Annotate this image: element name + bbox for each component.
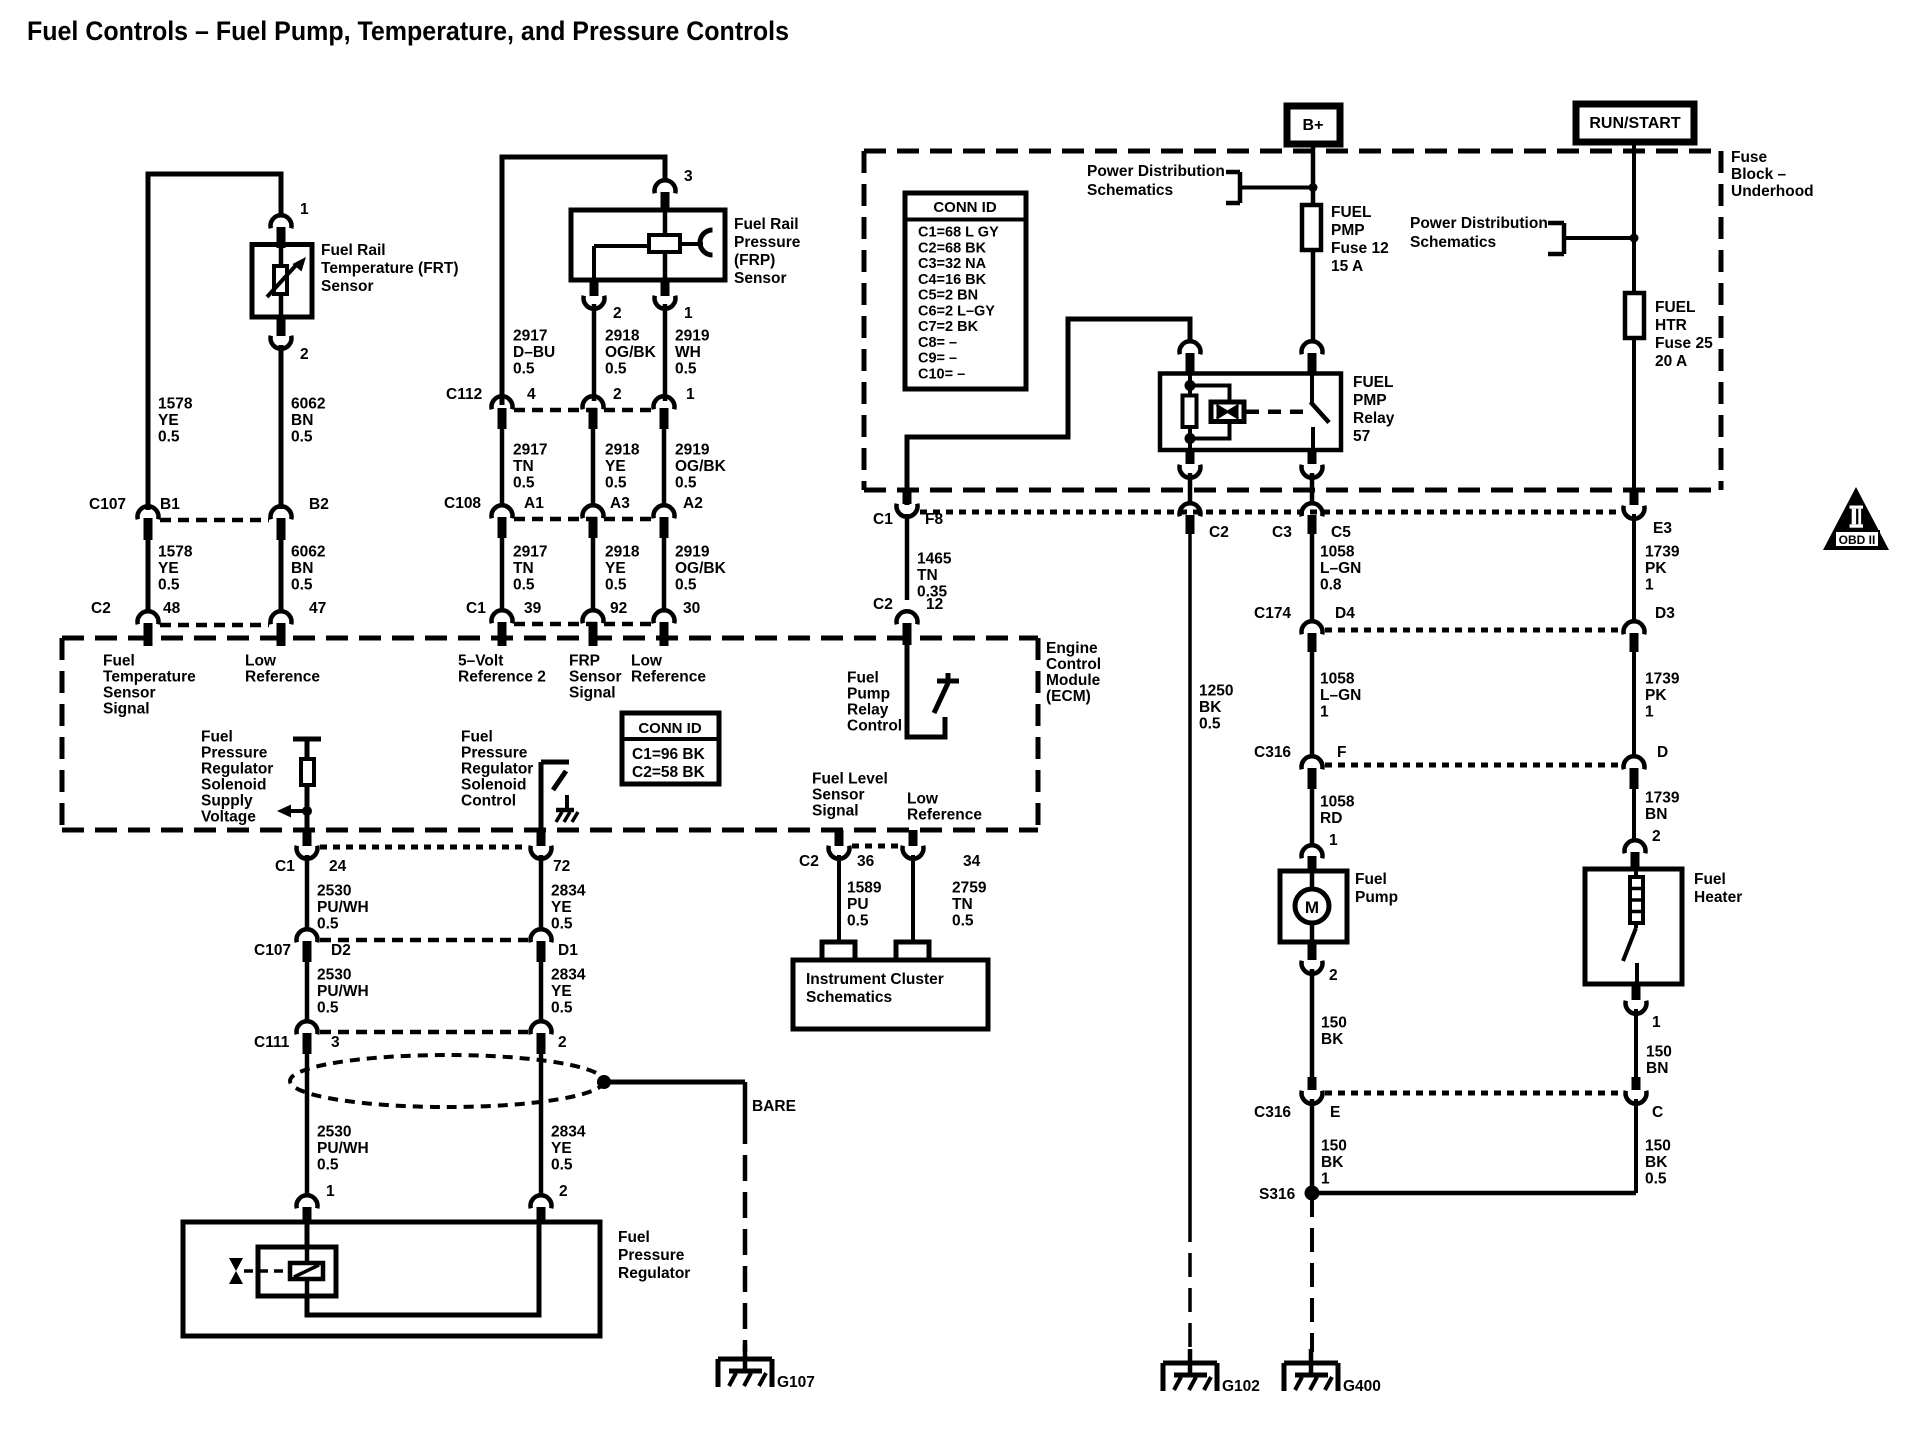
wire 1250 BK bbox=[1188, 534, 1192, 1218]
svg-text:C107: C107 bbox=[89, 496, 126, 513]
node relay pin 85 bbox=[1180, 341, 1201, 354]
connector E3 bbox=[1630, 490, 1639, 505]
heater fuel heater bbox=[1585, 869, 1682, 984]
ECM pin C2 36 fuel level sensor signal bbox=[835, 830, 844, 846]
svg-text:Fuel: Fuel bbox=[618, 1229, 650, 1246]
svg-text:M: M bbox=[1305, 898, 1319, 917]
wire 2917 D-BU bbox=[592, 304, 597, 401]
harness dotted line C1/F8 to E3 bbox=[920, 510, 1622, 515]
svg-text:2: 2 bbox=[613, 305, 622, 322]
svg-text:1: 1 bbox=[326, 1183, 335, 1200]
node pin 1 of FRT sensor bbox=[271, 215, 292, 228]
shield ellipse (dashed) bbox=[290, 1055, 604, 1107]
svg-text:A2: A2 bbox=[683, 495, 703, 512]
connector pin 72 (ECM) bbox=[537, 830, 546, 846]
svg-text:C9= –: C9= – bbox=[918, 351, 957, 367]
wire 1589 PU bbox=[837, 855, 841, 940]
connector C1 F8 (ECM pigtail) bbox=[903, 490, 912, 504]
OBD II symbol bbox=[1823, 487, 1889, 550]
connector C3 / C5 bbox=[1302, 503, 1323, 516]
svg-text:C5=2 BN: C5=2 BN bbox=[918, 288, 978, 304]
svg-text:B2: B2 bbox=[309, 496, 329, 513]
svg-text:C4=16 BK: C4=16 BK bbox=[918, 272, 987, 288]
svg-text:1: 1 bbox=[684, 305, 693, 322]
svg-text:C2=58 BK: C2=58 BK bbox=[632, 764, 706, 781]
svg-text:Control: Control bbox=[1046, 656, 1101, 673]
svg-text:OBD II: OBD II bbox=[1839, 533, 1876, 547]
svg-text:Heater: Heater bbox=[1694, 889, 1742, 906]
svg-text:G102: G102 bbox=[1222, 1378, 1260, 1395]
svg-text:Underhood: Underhood bbox=[1731, 183, 1814, 200]
svg-text:C2: C2 bbox=[91, 600, 111, 617]
relay FUEL PMP Relay 57 bbox=[1160, 374, 1341, 451]
svg-text:12: 12 bbox=[926, 596, 943, 613]
node relay pin 86 bbox=[1302, 341, 1323, 354]
connector C2 (relay 30 output) bbox=[1180, 503, 1201, 516]
wire 2834 YE lower bbox=[539, 1054, 544, 1195]
node shield junction bbox=[597, 1075, 611, 1089]
wire 1739 BN bbox=[1632, 789, 1636, 841]
svg-text:Pump: Pump bbox=[1355, 889, 1398, 906]
svg-text:FUEL: FUEL bbox=[1353, 374, 1393, 391]
svg-text:Regulator: Regulator bbox=[618, 1265, 690, 1282]
wire shield drain BARE bbox=[604, 1080, 745, 1085]
wire relay outputs to C2 C3 bbox=[1188, 473, 1193, 502]
svg-text:FUEL: FUEL bbox=[1655, 299, 1695, 316]
svg-text:C316: C316 bbox=[1254, 744, 1291, 761]
svg-text:1: 1 bbox=[686, 386, 695, 403]
svg-text:Fuel: Fuel bbox=[1694, 871, 1726, 888]
svg-text:Fuse: Fuse bbox=[1731, 149, 1768, 166]
svg-text:HTR: HTR bbox=[1655, 317, 1687, 334]
node pin 1 of FRP sensor bbox=[661, 280, 670, 296]
svg-text:2: 2 bbox=[613, 386, 622, 403]
svg-text:Fuel Controls – Fuel Pump, Tem: Fuel Controls – Fuel Pump, Temperature, … bbox=[27, 16, 789, 46]
connector C316 pin E bbox=[1308, 1077, 1317, 1090]
svg-text:C1=96 BK: C1=96 BK bbox=[632, 746, 706, 763]
node fuel pump pin 2 bbox=[1308, 942, 1317, 960]
wire FRP top bus bbox=[502, 157, 665, 405]
svg-text:Fuel Rail: Fuel Rail bbox=[734, 216, 799, 233]
svg-text:30: 30 bbox=[683, 600, 700, 617]
svg-text:C3: C3 bbox=[1272, 524, 1292, 541]
node pin 3 of FRP sensor bbox=[655, 180, 676, 193]
wire 1578 YE upper bbox=[279, 345, 284, 509]
wire RUN/START feed bbox=[1632, 142, 1636, 293]
svg-text:2: 2 bbox=[300, 346, 309, 363]
svg-text:C1: C1 bbox=[466, 600, 486, 617]
svg-text:FUEL: FUEL bbox=[1331, 204, 1371, 221]
resistor FRT sensor (Fuel Rail Temperature) bbox=[252, 245, 312, 318]
svg-text:2: 2 bbox=[559, 1183, 568, 1200]
svg-text:E: E bbox=[1330, 1104, 1340, 1121]
svg-text:C112: C112 bbox=[446, 386, 482, 403]
svg-text:92: 92 bbox=[610, 600, 627, 617]
svg-text:D2: D2 bbox=[331, 942, 351, 959]
svg-text:Power Distribution: Power Distribution bbox=[1410, 215, 1548, 232]
svg-text:F: F bbox=[1337, 744, 1346, 761]
svg-text:C107: C107 bbox=[254, 942, 291, 959]
svg-text:(ECM): (ECM) bbox=[1046, 688, 1091, 705]
svg-text:C2: C2 bbox=[873, 596, 893, 613]
svg-text:F8: F8 bbox=[925, 511, 943, 528]
wire ECM relay control to coil bbox=[907, 319, 1190, 505]
node relay pin 87 lower bbox=[1308, 450, 1317, 464]
svg-text:G107: G107 bbox=[777, 1374, 815, 1391]
svg-text:Sensor: Sensor bbox=[321, 278, 374, 295]
svg-text:34: 34 bbox=[963, 853, 981, 870]
svg-text:15 A: 15 A bbox=[1331, 258, 1363, 275]
svg-text:B1: B1 bbox=[160, 496, 180, 513]
svg-text:C108: C108 bbox=[444, 495, 481, 512]
svg-text:24: 24 bbox=[329, 858, 347, 875]
svg-text:C7=2 BK: C7=2 BK bbox=[918, 319, 979, 335]
wire 2917 TN lower bbox=[500, 538, 505, 610]
wire fuse to relay bbox=[1311, 250, 1316, 342]
svg-text:2: 2 bbox=[1652, 828, 1661, 845]
connector C1 pin 24 (ECM) bbox=[303, 830, 312, 846]
fuel pressure regulator box bbox=[183, 1222, 600, 1336]
wire 1739 PK 1 upper bbox=[1632, 514, 1636, 622]
svg-text:Power Distribution: Power Distribution bbox=[1087, 163, 1225, 180]
node pin 2 of FRP sensor bbox=[590, 280, 599, 296]
svg-text:1: 1 bbox=[300, 201, 309, 218]
svg-text:C3=32 NA: C3=32 NA bbox=[918, 256, 987, 272]
wire 1058 L-GN 1 bbox=[1310, 652, 1315, 757]
ECM pin 34 low reference bbox=[909, 830, 918, 846]
wire 150 BN bbox=[1634, 1009, 1638, 1077]
svg-text:PMP: PMP bbox=[1353, 392, 1387, 409]
svg-text:72: 72 bbox=[553, 858, 570, 875]
svg-text:C174: C174 bbox=[1254, 605, 1291, 622]
ECM module box (dashed) bbox=[62, 636, 1038, 641]
wire 150 BK 0.5 (heater) bbox=[1634, 1099, 1638, 1193]
svg-text:BARE: BARE bbox=[752, 1098, 796, 1115]
svg-text:Schematics: Schematics bbox=[1410, 234, 1496, 251]
svg-text:C1: C1 bbox=[275, 858, 295, 875]
svg-text:39: 39 bbox=[524, 600, 542, 617]
svg-text:Fuel Rail: Fuel Rail bbox=[321, 242, 386, 259]
svg-text:57: 57 bbox=[1353, 428, 1370, 445]
svg-text:E3: E3 bbox=[1653, 520, 1672, 537]
svg-text:Schematics: Schematics bbox=[806, 989, 892, 1006]
Fuse Block - Underhood box (dashed) bbox=[864, 149, 1721, 154]
svg-text:RUN/START: RUN/START bbox=[1589, 115, 1680, 132]
svg-text:2: 2 bbox=[558, 1034, 567, 1051]
wire 150 BK 1 bbox=[1310, 1099, 1315, 1193]
svg-text:Fuel: Fuel bbox=[1355, 871, 1387, 888]
terminal into instrument cluster (left) bbox=[822, 942, 855, 960]
svg-text:Sensor: Sensor bbox=[734, 270, 787, 287]
terminal B+ bbox=[1287, 106, 1340, 144]
svg-text:1: 1 bbox=[1652, 1014, 1661, 1031]
wire 2834 YE middle bbox=[539, 962, 544, 1022]
svg-text:C2=68 BK: C2=68 BK bbox=[918, 240, 987, 256]
svg-text:150BN: 150BN bbox=[1646, 1043, 1672, 1077]
valve symbol bbox=[229, 1258, 243, 1271]
svg-text:Instrument Cluster: Instrument Cluster bbox=[806, 971, 944, 988]
ECM internal ground for solenoid control bbox=[565, 795, 569, 810]
wire 2834 YE upper bbox=[539, 855, 544, 930]
ground G107 bbox=[718, 1357, 772, 1362]
wire stub into FRT sensor bbox=[277, 227, 286, 248]
CONN ID table for underhood connectors bbox=[905, 193, 1026, 389]
fuse FUEL HTR Fuse 25 20A bbox=[1625, 293, 1644, 338]
wire 1058 RD bbox=[1310, 789, 1315, 846]
dotted line pins 36-34 bbox=[852, 844, 900, 849]
wire FRT top bus bbox=[148, 174, 281, 510]
node fuel heater pin 1 bbox=[1632, 984, 1641, 1000]
wire 1250 BK dashed to ground bbox=[1188, 1218, 1192, 1352]
svg-text:Schematics: Schematics bbox=[1087, 182, 1173, 199]
motor fuel pump bbox=[1280, 871, 1347, 942]
svg-text:Fuse 25: Fuse 25 bbox=[1655, 335, 1713, 352]
wire 2530 PU/WH lower bbox=[305, 1054, 310, 1195]
wire 150 BK (pump) bbox=[1310, 969, 1315, 1077]
svg-text:(FRP): (FRP) bbox=[734, 252, 775, 269]
wire 2759 TN bbox=[911, 855, 915, 940]
svg-text:3: 3 bbox=[331, 1034, 340, 1051]
svg-text:D3: D3 bbox=[1655, 605, 1675, 622]
svg-text:C2: C2 bbox=[1209, 524, 1229, 541]
svg-text:D4: D4 bbox=[1335, 605, 1355, 622]
wire 2530 PU/WH upper bbox=[305, 855, 310, 930]
wire 2917 TN middle bbox=[500, 429, 505, 505]
sensor FRP (Fuel Rail Pressure) bbox=[571, 210, 725, 280]
instrument cluster box bbox=[793, 960, 988, 1029]
wire S316 dashed to ground bbox=[1310, 1193, 1314, 1352]
svg-text:48: 48 bbox=[163, 600, 181, 617]
terminal into instrument cluster (right) bbox=[896, 942, 929, 960]
svg-text:C1=68 L GY: C1=68 L GY bbox=[918, 225, 999, 241]
wire 1578 YE lower bbox=[146, 540, 151, 612]
ground G102 bbox=[1163, 1361, 1217, 1366]
svg-text:B+: B+ bbox=[1303, 117, 1324, 134]
terminal RUN/START bbox=[1576, 104, 1694, 142]
wire fuse to E3 bbox=[1632, 338, 1636, 492]
svg-text:C316: C316 bbox=[1254, 1104, 1291, 1121]
svg-text:2: 2 bbox=[1329, 967, 1338, 984]
CONN ID table for ECM connectors bbox=[622, 713, 719, 784]
svg-text:Module: Module bbox=[1046, 672, 1101, 689]
svg-text:47: 47 bbox=[309, 600, 326, 617]
svg-text:PMP: PMP bbox=[1331, 222, 1365, 239]
svg-text:1: 1 bbox=[1329, 832, 1338, 849]
svg-text:D1: D1 bbox=[558, 942, 578, 959]
svg-text:20 A: 20 A bbox=[1655, 353, 1687, 370]
svg-text:Fuse 12: Fuse 12 bbox=[1331, 240, 1389, 257]
svg-text:Pressure: Pressure bbox=[618, 1247, 685, 1264]
wire 1058 L-GN 0.8 bbox=[1310, 534, 1315, 622]
svg-text:A1: A1 bbox=[524, 495, 544, 512]
svg-text:150BK: 150BK bbox=[1321, 1014, 1347, 1048]
svg-text:Block –: Block – bbox=[1731, 166, 1787, 183]
svg-text:36: 36 bbox=[857, 853, 875, 870]
connector C316 pin C bbox=[1632, 1077, 1641, 1090]
solenoid fuel pressure regulator bbox=[305, 1222, 310, 1247]
svg-text:A3: A3 bbox=[610, 495, 630, 512]
svg-text:C10= –: C10= – bbox=[918, 367, 965, 383]
svg-text:Pressure: Pressure bbox=[734, 234, 801, 251]
svg-text:D: D bbox=[1657, 744, 1668, 761]
svg-text:4: 4 bbox=[527, 386, 536, 403]
node pin 2 of FRT sensor bbox=[277, 317, 286, 336]
svg-text:Relay: Relay bbox=[1353, 410, 1395, 427]
svg-text:Engine: Engine bbox=[1046, 640, 1098, 657]
svg-text:C5: C5 bbox=[1331, 524, 1351, 541]
svg-text:C6=2 L–GY: C6=2 L–GY bbox=[918, 303, 995, 319]
wire B+ feed bbox=[1311, 144, 1316, 205]
node relay pin 30 lower bbox=[1186, 450, 1195, 464]
harness dotted line C1/24 to 72 bbox=[320, 845, 528, 850]
fuse FUEL PMP Fuse 12 15A bbox=[1302, 205, 1321, 250]
svg-text:C2: C2 bbox=[799, 853, 819, 870]
svg-text:CONN ID: CONN ID bbox=[933, 199, 997, 216]
svg-text:C1: C1 bbox=[873, 511, 893, 528]
svg-text:C: C bbox=[1652, 1104, 1663, 1121]
svg-text:G400: G400 bbox=[1343, 1378, 1381, 1395]
svg-text:CONN ID: CONN ID bbox=[638, 720, 702, 737]
ground G400 bbox=[1284, 1361, 1338, 1366]
svg-text:Temperature (FRT): Temperature (FRT) bbox=[321, 260, 459, 277]
wire 2530 PU/WH middle bbox=[305, 962, 310, 1022]
svg-text:C8= –: C8= – bbox=[918, 335, 957, 351]
svg-text:3: 3 bbox=[684, 168, 693, 185]
svg-text:C111: C111 bbox=[254, 1034, 290, 1051]
svg-text:S316: S316 bbox=[1259, 1186, 1296, 1203]
wire 1739 PK 1 lower bbox=[1632, 652, 1636, 757]
wire 1465 TN bbox=[905, 514, 910, 600]
